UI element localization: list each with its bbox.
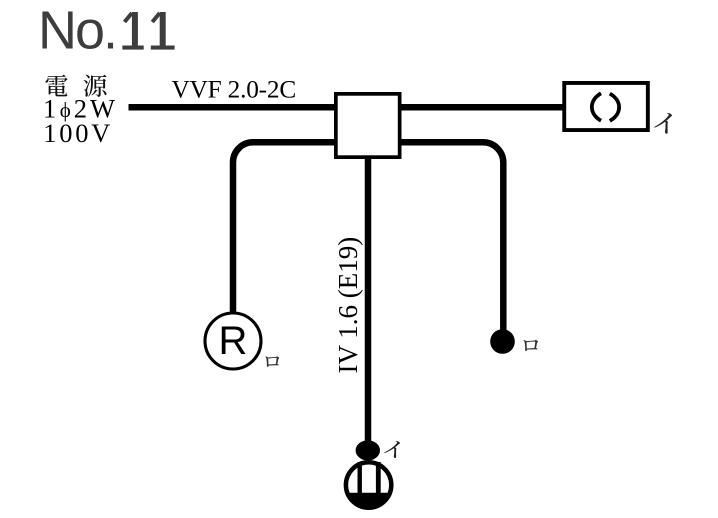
wire: bottom branch down to switch i [365, 155, 372, 444]
label ro (switch) [523, 340, 538, 351]
wire: right branch down to switch ro [396, 142, 503, 335]
switch dot ro [490, 329, 515, 354]
wire: left branch down to lamp R [233, 142, 340, 314]
junction box [336, 94, 400, 157]
ceiling light symbol [346, 462, 391, 508]
svg-text:IV 1.6 (E19): IV 1.6 (E19) [333, 237, 363, 374]
wire: source to junction box [129, 104, 341, 111]
label i (receptacle) [654, 113, 672, 134]
receptacle box [564, 83, 648, 130]
label ro (lamp R) [265, 356, 279, 367]
switch dot i [356, 440, 380, 460]
receptacle parens ( ) [592, 93, 601, 120]
svg-text:VVF 2.0-2C: VVF 2.0-2C [172, 75, 297, 103]
wire: junction box to receptacle [396, 104, 564, 111]
svg-text:R: R [219, 319, 248, 363]
title No.11 [38, 1, 175, 61]
svg-text:100V: 100V [43, 118, 113, 148]
svg-text:No.: No. [38, 1, 116, 61]
label i (switch) [384, 441, 400, 458]
lamp R circle [205, 313, 261, 369]
source label 電源 (kanji paths) [45, 75, 106, 97]
